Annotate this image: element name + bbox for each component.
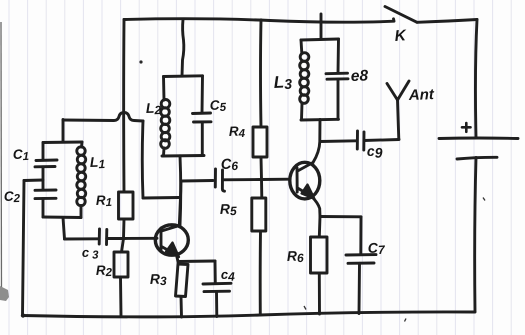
- node A: tank top wire with hop over rail: [63, 113, 143, 122]
- capacitor C8 plates: [326, 72, 348, 75]
- svg-text:R1: R1: [96, 192, 113, 209]
- stray tick near battery: [483, 198, 485, 201]
- capacitor C6 plates: [214, 169, 217, 187]
- capacitor C4 plates: [203, 282, 231, 286]
- capacitor C1 plates: [36, 159, 57, 162]
- wire bottom rail: [23, 312, 476, 317]
- battery plus sign: [462, 123, 471, 132]
- wire R5 to bottom rail: [259, 231, 262, 315]
- wire R2 to bottom rail: [119, 277, 122, 316]
- L2 tank box bottom: [162, 154, 204, 157]
- resistor R3: [176, 264, 189, 297]
- wire C8 to box bottom: [337, 79, 340, 119]
- svg-text:c3: c3: [82, 244, 100, 262]
- svg-text:L2: L2: [146, 99, 162, 117]
- stray mark near Q1 node: [139, 60, 142, 63]
- transistor Q2 emitter arrowhead: [302, 185, 315, 199]
- wire base node to Q1 base: [124, 237, 158, 240]
- L3 tank left side below coil: [300, 103, 303, 120]
- wire rail L3 top stub: [320, 14, 323, 39]
- left tank box bottom: [43, 216, 81, 219]
- stray tick below rail right: [405, 319, 407, 322]
- capacitor C3 plates: [98, 229, 101, 244]
- wire R1 to divider node: [122, 219, 125, 239]
- L3 tank box top: [301, 39, 339, 40]
- svg-text:C7: C7: [367, 239, 386, 257]
- capacitor C2 plates: [35, 189, 56, 192]
- L2 tank box top: [164, 74, 203, 78]
- wire R3 to bottom rail: [180, 297, 183, 318]
- svg-text:R5: R5: [220, 200, 238, 218]
- wire tank bottom stub to C3: [63, 218, 65, 240]
- capacitor C9 plates: [356, 131, 359, 149]
- antenna fork left arm: [387, 84, 398, 101]
- wire Q2 emitter to C7: [320, 215, 361, 218]
- transistor Q1 circle: [155, 225, 188, 255]
- svg-text:R6: R6: [287, 247, 305, 265]
- wire C6 left: [181, 179, 213, 182]
- left tank box top: [43, 141, 82, 144]
- svg-text:R2: R2: [96, 262, 113, 279]
- resistor R4: [253, 127, 267, 157]
- L2 tank left side below coil: [162, 148, 165, 156]
- switch K blade: [385, 7, 417, 23]
- inductor L1 side top: [80, 142, 83, 147]
- svg-text:L1: L1: [90, 153, 106, 171]
- blob at bottom rail left end: [21, 313, 25, 317]
- wire hop down vertical: [141, 121, 145, 198]
- wire C5 to box bottom: [201, 122, 204, 156]
- svg-text:R3: R3: [150, 270, 168, 288]
- transistor Q2 collector: [298, 163, 314, 172]
- svg-text:Ant: Ant: [408, 86, 436, 104]
- svg-text:c9: c9: [367, 142, 383, 161]
- transistor Q1 base bar: [160, 228, 163, 251]
- wire C4 to bottom rail: [215, 292, 218, 317]
- stray tick left of R6: [304, 306, 306, 310]
- wire R6 to bottom rail: [318, 273, 321, 314]
- svg-text:e8: e8: [351, 67, 369, 85]
- L3 tank box bottom: [301, 118, 339, 122]
- wire C7 to bottom rail: [358, 263, 361, 313]
- wire hop horizontal to collector line: [143, 196, 179, 199]
- antenna fork right arm: [398, 81, 410, 100]
- transistor Q2 base bar: [296, 168, 299, 192]
- wire left outer vertical: [23, 181, 25, 316]
- wire below C2: [42, 199, 45, 217]
- wire left rail top: [122, 20, 125, 193]
- wire Q1 collector up to C6 node: [179, 181, 181, 226]
- svg-text:C5: C5: [209, 97, 227, 114]
- svg-text:c4: c4: [221, 267, 236, 284]
- capacitor C1 top stub of left tank: [62, 120, 65, 143]
- wire C3 to base node: [107, 237, 124, 240]
- wire C4 top lead: [214, 261, 217, 284]
- wire mid node tap: [24, 179, 43, 182]
- capacitor C7 plates: [346, 253, 376, 256]
- wire R4 to C6 node: [260, 157, 263, 180]
- wire C7 lead down: [359, 217, 362, 255]
- battery short plate: [457, 157, 497, 159]
- wire rail3 node to Q2 base: [262, 178, 290, 181]
- wire Q2 collector up to tank: [313, 120, 320, 163]
- inductor L1 loops: [77, 147, 85, 155]
- resistor R5: [252, 198, 266, 231]
- resistor R6: [311, 237, 328, 273]
- resistor R1: [119, 192, 134, 219]
- scan edge artifact left: [0, 22, 3, 298]
- capacitor C5 plates: [193, 112, 211, 115]
- L2 tank left side above coil: [162, 77, 165, 101]
- transistor Q2 circle: [290, 162, 320, 199]
- wire L2 tank bottom stub down to Q1 collector: [179, 156, 183, 226]
- wire Q1 emitter to C4: [178, 260, 215, 263]
- wire C6 node to R5: [260, 180, 263, 199]
- wire C9 to antenna: [364, 140, 399, 141]
- resistor R2: [114, 252, 128, 277]
- svg-text:C6: C6: [221, 156, 239, 173]
- wire rail3 from top to R4: [259, 20, 262, 127]
- scan blob bottom-left: [0, 286, 9, 301]
- wire Q1 emitter node: [177, 255, 179, 262]
- svg-text:C1: C1: [13, 146, 30, 163]
- wire box left above C1: [42, 143, 45, 161]
- inductor L2 loops: [161, 100, 170, 109]
- battery long plate: [439, 137, 518, 140]
- L3 tank right side above C8: [337, 39, 340, 73]
- wire right rail down to battery: [475, 20, 477, 138]
- wire top rail: [124, 19, 394, 22]
- transistor Q2 emitter: [298, 188, 312, 196]
- L2 tank right side above C5: [201, 76, 204, 113]
- wire rail2 from top to L2 tank: [182, 20, 184, 77]
- L3 tank left side above coil: [300, 40, 304, 53]
- wire divider node to R2: [122, 239, 124, 253]
- inductor L1 side bottom: [80, 206, 83, 218]
- wire to capacitor C3: [65, 237, 99, 240]
- transistor Q1 collector: [162, 226, 180, 232]
- transistor Q1 emitter arrowhead: [166, 243, 179, 258]
- svg-text:L3: L3: [273, 72, 292, 92]
- transistor Q1 emitter: [162, 247, 177, 256]
- wire C9 tap: [320, 139, 356, 143]
- svg-text:K: K: [394, 27, 408, 45]
- wire battery to bottom rail: [475, 158, 476, 312]
- wire Q2 emitter node: [312, 196, 321, 216]
- wire switch to right rail: [417, 20, 477, 23]
- wire R3 top lead: [177, 262, 180, 265]
- inductor L3 loops: [300, 53, 309, 62]
- svg-text:R4: R4: [229, 123, 246, 140]
- antenna Ant mast: [398, 100, 399, 140]
- wire Q2 emitter to R6: [318, 217, 322, 238]
- svg-text:C2: C2: [4, 188, 21, 205]
- wire C6 to rail3 node: [223, 178, 262, 181]
- wire between C1 and C2: [42, 167, 45, 190]
